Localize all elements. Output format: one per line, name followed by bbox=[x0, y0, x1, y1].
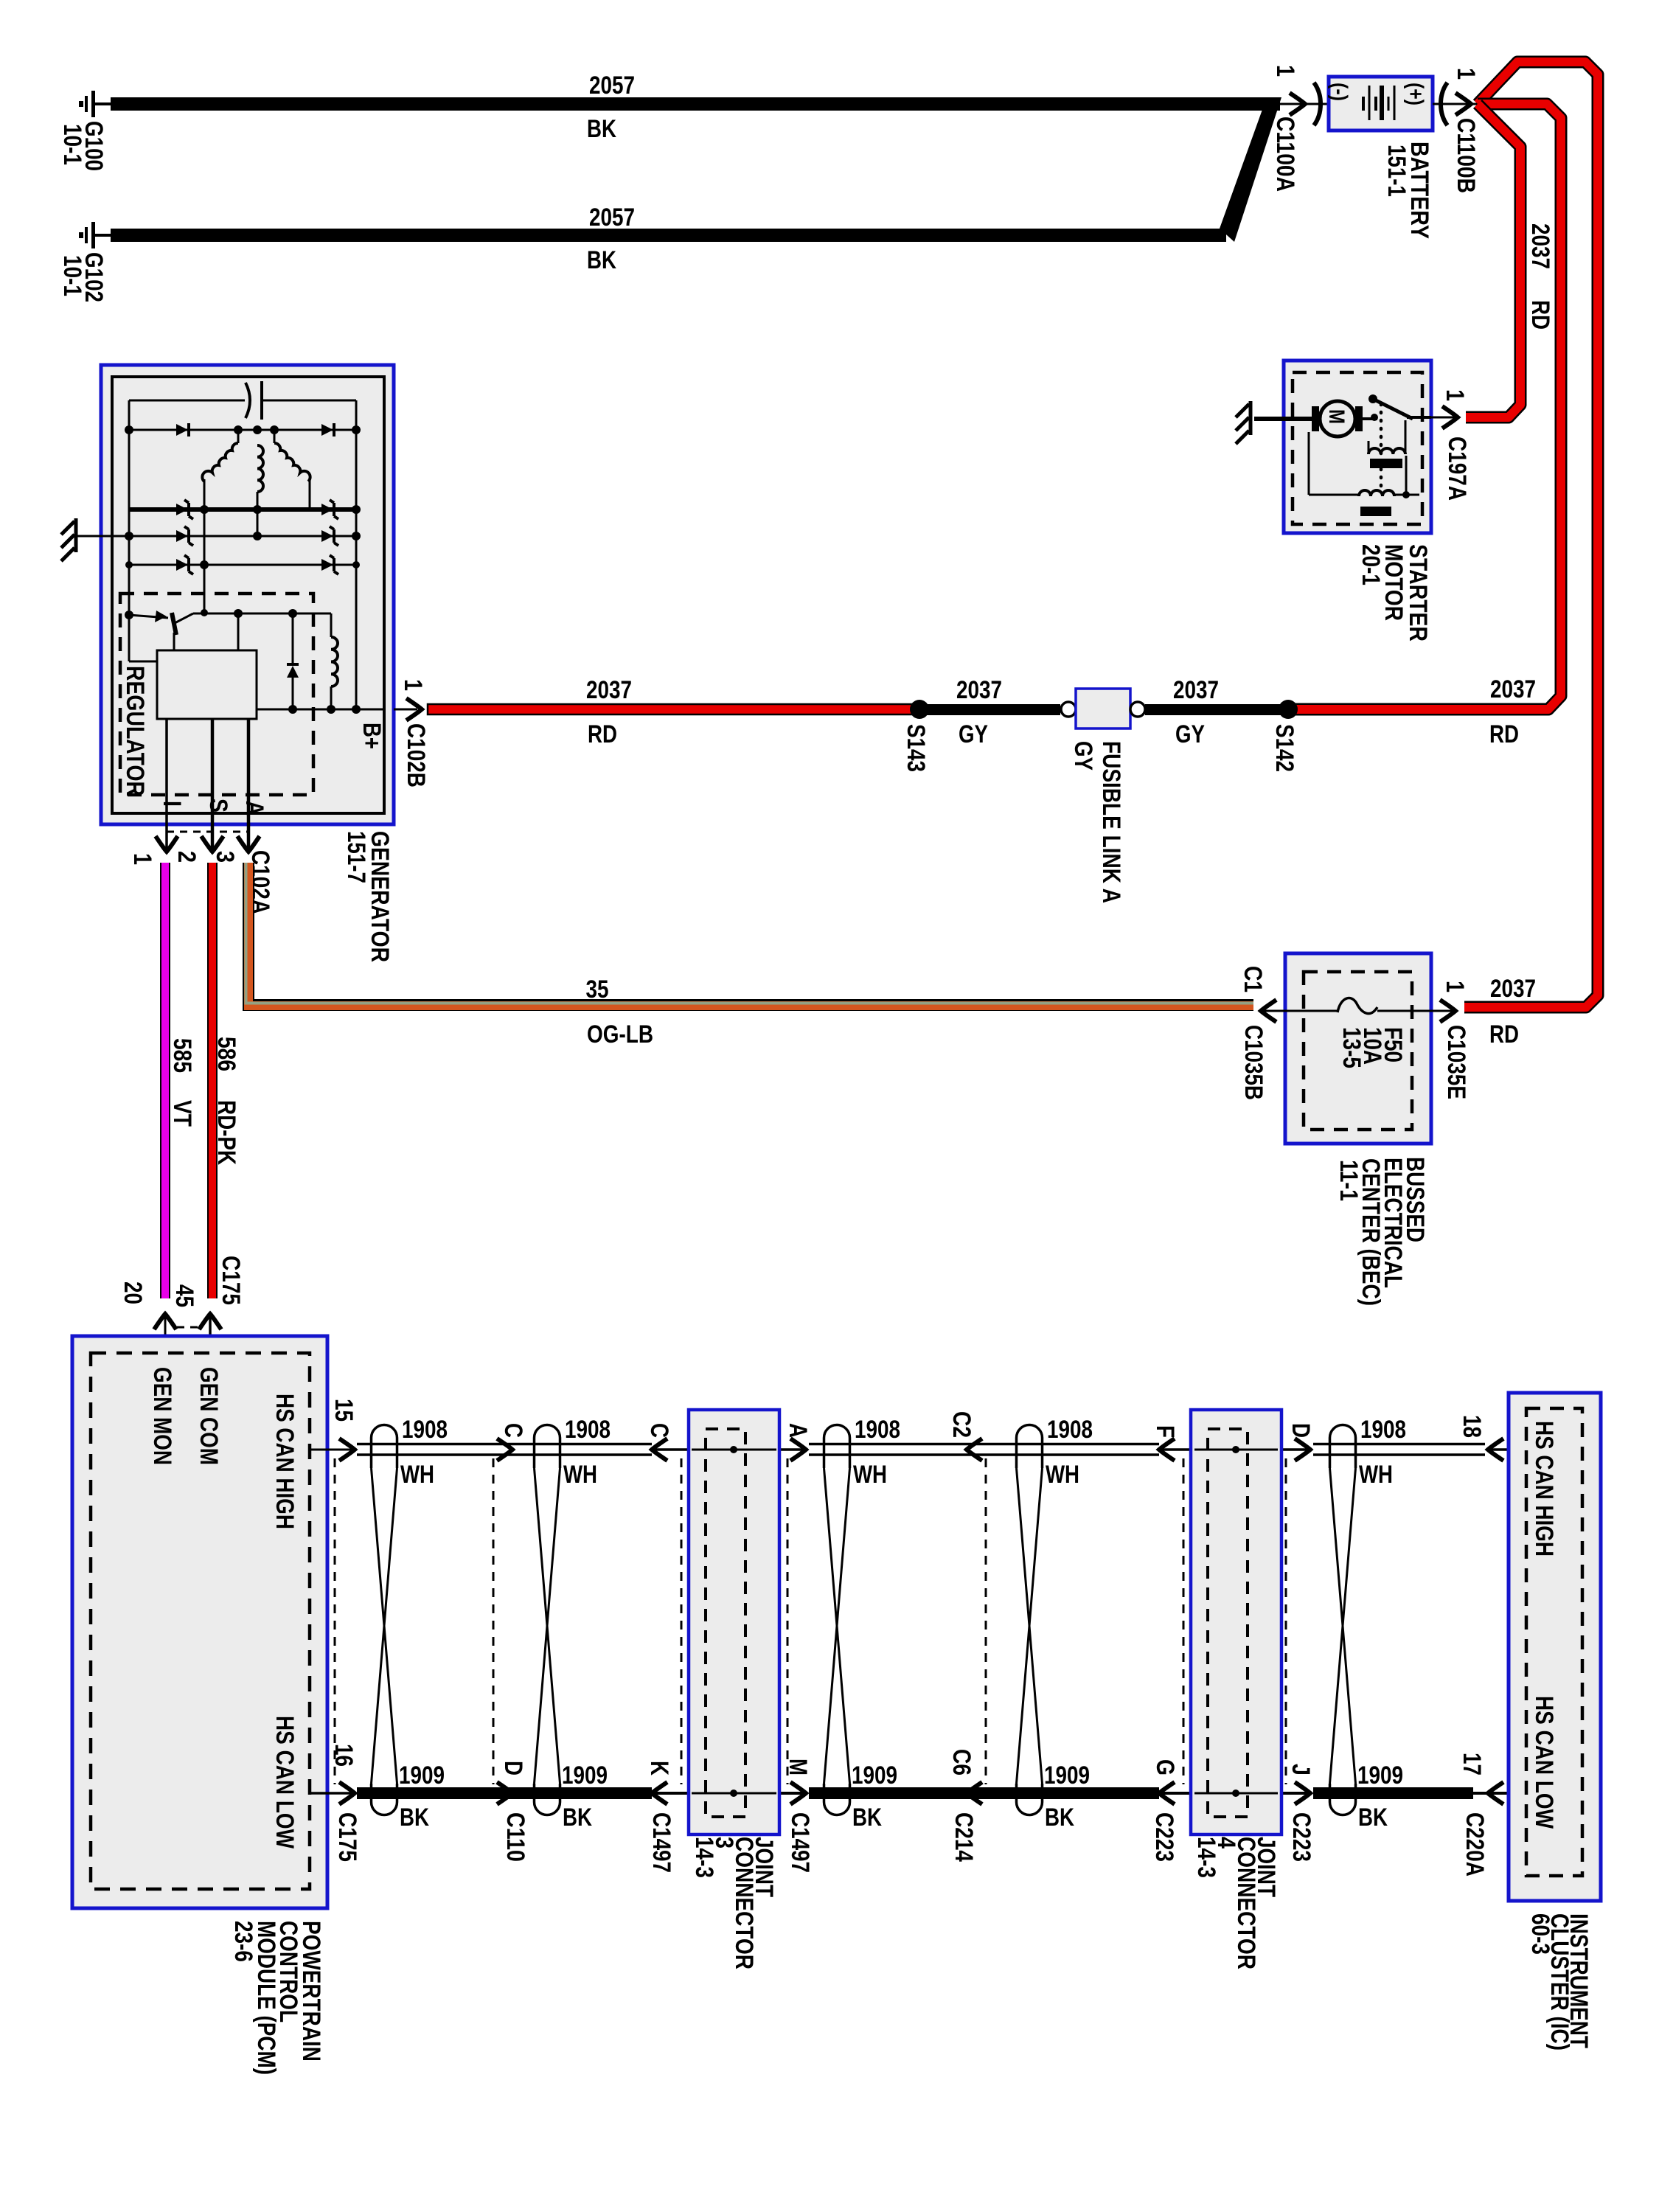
svg-text:C1035E: C1035E bbox=[1442, 1025, 1470, 1099]
svg-text:20: 20 bbox=[119, 1281, 147, 1304]
svg-text:D: D bbox=[1287, 1423, 1315, 1438]
svg-text:11-1: 11-1 bbox=[1335, 1160, 1363, 1201]
svg-text:C2: C2 bbox=[947, 1411, 975, 1438]
svg-text:1: 1 bbox=[1441, 981, 1469, 992]
svg-text:VT: VT bbox=[168, 1100, 196, 1127]
svg-text:C110: C110 bbox=[501, 1812, 529, 1862]
svg-text:C197A: C197A bbox=[1443, 437, 1471, 501]
svg-text:S142: S142 bbox=[1270, 724, 1298, 772]
svg-text:BK: BK bbox=[563, 1804, 592, 1832]
svg-text:WH: WH bbox=[1359, 1461, 1393, 1489]
svg-text:17: 17 bbox=[1458, 1753, 1486, 1775]
svg-text:A: A bbox=[784, 1423, 812, 1438]
svg-text:1909: 1909 bbox=[399, 1761, 445, 1790]
svg-text:C223: C223 bbox=[1150, 1812, 1178, 1862]
svg-text:WH: WH bbox=[400, 1461, 434, 1489]
svg-text:1: 1 bbox=[1452, 68, 1480, 80]
svg-text:1909: 1909 bbox=[852, 1761, 897, 1790]
svg-text:60-3: 60-3 bbox=[1526, 1913, 1554, 1955]
svg-text:586: 586 bbox=[212, 1037, 240, 1071]
svg-text:C102B: C102B bbox=[402, 723, 430, 787]
svg-text:OG-LB: OG-LB bbox=[587, 1020, 653, 1048]
svg-text:WH: WH bbox=[1046, 1461, 1079, 1489]
svg-text:16: 16 bbox=[330, 1744, 358, 1767]
svg-text:C: C bbox=[499, 1423, 527, 1438]
svg-text:14-3: 14-3 bbox=[1192, 1837, 1220, 1878]
svg-text:BK: BK bbox=[587, 115, 616, 143]
svg-text:585: 585 bbox=[168, 1038, 196, 1073]
svg-text:14-3: 14-3 bbox=[690, 1837, 718, 1878]
svg-text:45: 45 bbox=[170, 1284, 198, 1307]
svg-text:13-5: 13-5 bbox=[1338, 1027, 1366, 1068]
svg-text:C1497: C1497 bbox=[786, 1812, 814, 1873]
svg-text:10-1: 10-1 bbox=[58, 124, 86, 165]
svg-text:BK: BK bbox=[1358, 1804, 1388, 1832]
svg-text:1909: 1909 bbox=[1357, 1761, 1403, 1790]
svg-text:D: D bbox=[499, 1761, 527, 1775]
svg-text:1908: 1908 bbox=[1360, 1416, 1406, 1444]
svg-text:1909: 1909 bbox=[562, 1761, 608, 1790]
svg-text:C1497: C1497 bbox=[647, 1812, 675, 1873]
svg-text:G: G bbox=[1151, 1759, 1179, 1775]
svg-text:RD: RD bbox=[1489, 1020, 1519, 1048]
svg-text:M: M bbox=[1324, 409, 1349, 424]
svg-text:J: J bbox=[1287, 1764, 1315, 1775]
svg-text:2037: 2037 bbox=[1173, 676, 1219, 704]
svg-text:18: 18 bbox=[1458, 1415, 1486, 1438]
svg-text:C6: C6 bbox=[947, 1749, 975, 1775]
svg-text:15: 15 bbox=[330, 1399, 358, 1422]
svg-text:WH: WH bbox=[563, 1461, 597, 1489]
svg-text:2037: 2037 bbox=[956, 676, 1002, 704]
svg-text:GY: GY bbox=[1069, 741, 1097, 771]
svg-text:HS CAN HIGH: HS CAN HIGH bbox=[1530, 1421, 1558, 1557]
svg-text:23-6: 23-6 bbox=[229, 1921, 257, 1962]
svg-text:20-1: 20-1 bbox=[1357, 544, 1385, 585]
svg-text:1908: 1908 bbox=[402, 1416, 448, 1444]
svg-text:2: 2 bbox=[173, 851, 201, 863]
svg-text:C175: C175 bbox=[217, 1256, 245, 1305]
svg-text:2037: 2037 bbox=[1490, 975, 1536, 1003]
svg-text:A: A bbox=[240, 801, 268, 815]
svg-text:HS CAN HIGH: HS CAN HIGH bbox=[271, 1394, 299, 1529]
svg-text:1: 1 bbox=[128, 853, 156, 865]
svg-text:BK: BK bbox=[587, 246, 616, 274]
svg-text:REGULATOR: REGULATOR bbox=[121, 666, 149, 796]
svg-text:1: 1 bbox=[399, 679, 427, 691]
svg-text:1908: 1908 bbox=[1047, 1416, 1093, 1444]
svg-text:BK: BK bbox=[1045, 1804, 1074, 1832]
svg-text:RD: RD bbox=[588, 720, 617, 748]
svg-text:1908: 1908 bbox=[855, 1416, 900, 1444]
svg-text:2057: 2057 bbox=[589, 72, 635, 100]
svg-text:C214: C214 bbox=[950, 1812, 978, 1862]
svg-text:(+): (+) bbox=[1403, 83, 1427, 105]
svg-text:10-1: 10-1 bbox=[58, 255, 86, 296]
svg-text:2037: 2037 bbox=[1490, 675, 1536, 703]
svg-text:C1035B: C1035B bbox=[1239, 1025, 1267, 1100]
svg-text:M: M bbox=[784, 1759, 812, 1775]
svg-text:3: 3 bbox=[211, 851, 239, 863]
svg-text:C175: C175 bbox=[333, 1812, 361, 1862]
svg-text:B+: B+ bbox=[358, 723, 386, 749]
svg-text:CONNECTOR: CONNECTOR bbox=[1232, 1837, 1260, 1969]
svg-text:I: I bbox=[158, 801, 186, 807]
svg-text:151-7: 151-7 bbox=[342, 831, 370, 883]
svg-text:RD-PK: RD-PK bbox=[212, 1100, 240, 1165]
svg-text:GY: GY bbox=[1175, 720, 1205, 748]
svg-text:BK: BK bbox=[400, 1804, 429, 1832]
svg-text:RD: RD bbox=[1489, 720, 1519, 748]
svg-text:F: F bbox=[1151, 1425, 1179, 1438]
svg-text:C1100A: C1100A bbox=[1271, 116, 1299, 192]
svg-text:151-1: 151-1 bbox=[1382, 145, 1411, 197]
svg-text:K: K bbox=[645, 1761, 673, 1775]
svg-text:1: 1 bbox=[1271, 65, 1299, 77]
svg-text:2057: 2057 bbox=[589, 204, 635, 232]
svg-text:1909: 1909 bbox=[1044, 1761, 1090, 1790]
svg-text:1908: 1908 bbox=[565, 1416, 611, 1444]
svg-text:(-): (-) bbox=[1327, 83, 1352, 101]
svg-text:2037: 2037 bbox=[586, 676, 632, 704]
svg-text:C220A: C220A bbox=[1461, 1812, 1489, 1877]
svg-text:HS CAN LOW: HS CAN LOW bbox=[271, 1716, 299, 1849]
svg-text:1: 1 bbox=[1441, 389, 1469, 401]
svg-text:HS CAN LOW: HS CAN LOW bbox=[1530, 1696, 1558, 1829]
svg-text:35: 35 bbox=[586, 975, 609, 1004]
svg-text:GY: GY bbox=[959, 720, 988, 748]
svg-text:GEN MON: GEN MON bbox=[148, 1367, 176, 1465]
svg-text:GEN COM: GEN COM bbox=[195, 1367, 223, 1465]
svg-text:S143: S143 bbox=[902, 724, 930, 772]
svg-text:RD: RD bbox=[1526, 300, 1554, 330]
svg-text:2037: 2037 bbox=[1526, 223, 1554, 269]
svg-text:C1100B: C1100B bbox=[1452, 118, 1480, 193]
svg-text:CONNECTOR: CONNECTOR bbox=[730, 1837, 758, 1969]
svg-text:C1: C1 bbox=[1239, 966, 1267, 992]
svg-text:FUSIBLE LINK A: FUSIBLE LINK A bbox=[1097, 741, 1125, 903]
svg-text:C223: C223 bbox=[1287, 1812, 1315, 1862]
svg-text:WH: WH bbox=[853, 1461, 887, 1489]
svg-text:S: S bbox=[204, 799, 232, 813]
svg-text:C: C bbox=[645, 1423, 673, 1438]
svg-text:BK: BK bbox=[852, 1804, 882, 1832]
